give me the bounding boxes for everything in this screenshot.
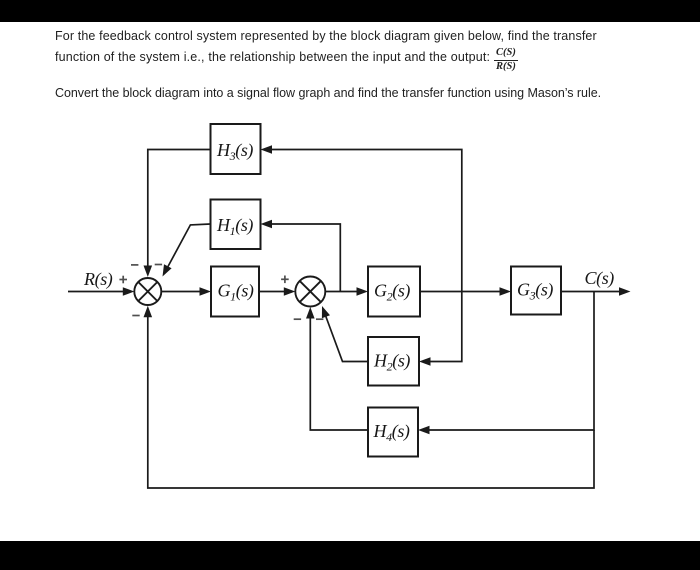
arrowhead: into H2 right edge — [419, 357, 431, 366]
wire: H3 output left and down to S1 top — [148, 150, 211, 270]
arrowhead: into G2 — [357, 287, 369, 296]
arrowhead: into H1 right edge — [261, 220, 273, 229]
block H2(s) — [368, 337, 419, 386]
arrowhead: into S1 bottom (outer loop) — [144, 306, 153, 318]
wire: G3 output to C(s) — [561, 291, 622, 293]
arrowhead: into S1 upper-right (from H1 diagonal) — [163, 264, 172, 276]
arrowhead: into H4 right edge — [418, 426, 430, 435]
summing junction S1 — [134, 278, 161, 305]
block G3(s) — [511, 267, 561, 315]
wire: G2 output to G3 — [420, 291, 503, 293]
svg-text:H2(s): H2(s) — [373, 351, 410, 374]
arrowhead: into S1 from left — [123, 287, 135, 296]
svg-text:G1(s): G1(s) — [218, 281, 254, 304]
arrowhead: into H3 right edge — [261, 145, 273, 154]
wire: output takeoff down to outer feedback bottom line — [148, 314, 594, 488]
svg-text:R(s): R(s) — [83, 269, 113, 290]
svg-text:H4(s): H4(s) — [373, 421, 410, 444]
top black bar — [0, 0, 700, 22]
problem text line 1 — [55, 29, 597, 43]
wire: S1 output to G1 — [161, 291, 202, 293]
problem text line 2 with fraction C(S)/R(S) — [55, 50, 490, 64]
sign - above S1 left — [131, 264, 138, 266]
svg-text:G2(s): G2(s) — [374, 281, 410, 304]
wire: G1 output to summing junction S2 — [259, 291, 287, 293]
wire: H2 output left then diagonal to S2 lower-right — [326, 316, 369, 362]
sign - below S2 left — [294, 318, 301, 320]
svg-text:H3(s): H3(s) — [216, 140, 253, 163]
arrowhead: into S2 from left — [284, 287, 296, 296]
summing junction S2 — [295, 277, 325, 307]
bottom black bar — [0, 541, 700, 570]
wire: takeoff after S2 up to H1 input — [269, 224, 340, 292]
block H4(s) — [368, 408, 418, 457]
wire: H4 output left and up to S2 bottom — [310, 315, 368, 430]
svg-text:G3(s): G3(s) — [517, 280, 553, 303]
wire: output takeoff down to H4 input — [427, 292, 594, 431]
problem text line 3 — [55, 86, 601, 100]
svg-text:H1(s): H1(s) — [216, 215, 253, 238]
svg-text:C(s): C(s) — [585, 268, 615, 289]
arrowhead: into S2 lower-right (from H2 diagonal) — [322, 306, 330, 318]
sign + at S2 input — [281, 276, 289, 284]
wire: takeoff between G2 and G3 down to H2 input — [428, 292, 462, 362]
sign - below S2 right — [316, 318, 323, 320]
block H3(s) — [211, 124, 261, 174]
sign - below S1 — [132, 315, 139, 317]
wire: takeoff between G2 and G3 up to H3 input — [269, 150, 462, 292]
wire: S2 output to G2 — [325, 291, 360, 293]
arrowhead: output C(s) — [619, 287, 631, 296]
block H1(s) — [211, 200, 261, 250]
arrowhead: into G3 — [500, 287, 512, 296]
sign + at S1 input — [119, 276, 127, 284]
fraction C(S)/R(S) — [494, 47, 518, 73]
arrowhead: into S1 top (from H3) — [144, 266, 153, 278]
block G1(s) — [211, 267, 259, 317]
wire: H1 output left then diagonal to S1 upper-right — [168, 224, 211, 267]
block G2(s) — [368, 267, 420, 317]
arrowhead: into G1 — [200, 287, 212, 296]
wire: input R(s) to summing junction S1 — [68, 291, 125, 293]
sign - above S1 right — [155, 264, 162, 266]
arrowhead: into S2 bottom (from H4) — [306, 307, 315, 319]
